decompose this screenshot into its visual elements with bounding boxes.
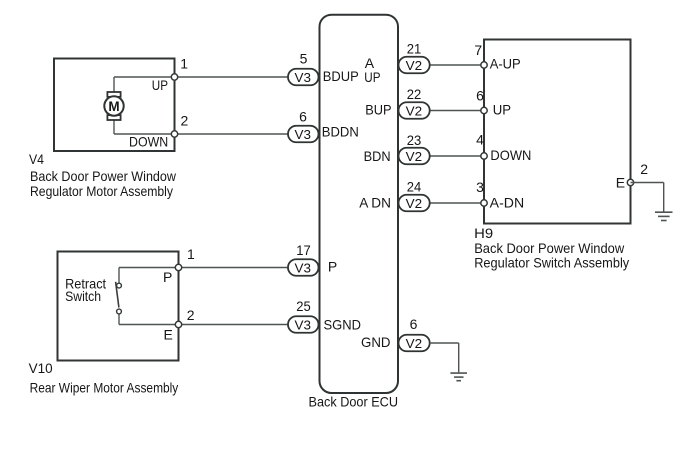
pin 4 of H9 [481,153,487,159]
svg-text:V3: V3 [295,317,312,332]
svg-text:A DN: A DN [359,195,391,211]
svg-text:6: 6 [299,109,307,125]
svg-text:Back Door ECU: Back Door ECU [309,394,399,410]
connector V2 pin 21 oval [399,57,430,74]
svg-text:DOWN: DOWN [490,147,531,163]
svg-text:BDUP: BDUP [323,68,359,84]
svg-text:V2: V2 [406,103,423,118]
pin 6 of H9 [481,107,487,113]
pin 2 of V4 [171,131,177,137]
wire ECU row3 to H9 pin 4 [430,155,484,157]
svg-text:DOWN: DOWN [129,133,168,149]
wire ECU row2 to H9 pin 6 [430,110,484,112]
svg-text:24: 24 [407,179,422,195]
svg-text:P: P [328,259,337,275]
svg-text:UP: UP [152,77,168,93]
wire V4 row2 DOWN (pin 2 to ECU) [114,133,289,135]
wire GND oval to ground [430,342,459,344]
retract switch S1 (V10) [116,282,122,314]
svg-text:V2: V2 [406,149,423,164]
svg-text:V10: V10 [29,360,53,376]
svg-text:GND: GND [361,334,391,350]
component box V10 Rear Wiper Motor Assembly [58,252,179,361]
pin 1 of V10 [175,264,181,270]
svg-text:21: 21 [407,41,422,57]
svg-text:4: 4 [476,132,484,148]
pin 2 of H9 [627,179,633,185]
component box V4 Back Door Power Window Regulator Motor Assembly [54,59,175,152]
svg-text:UP: UP [364,69,380,85]
svg-text:E: E [616,175,625,191]
motor M (V4) [104,92,123,120]
svg-text:P: P [163,269,172,285]
svg-text:Back Door Power Window: Back Door Power Window [30,168,177,184]
svg-text:Regulator Switch Assembly: Regulator Switch Assembly [474,254,629,270]
ECU box Back Door ECU [320,15,399,393]
ground symbol (ECU GND) [450,373,467,381]
svg-text:2: 2 [640,161,648,177]
svg-text:V2: V2 [406,58,423,73]
wire V10 row2 E (pin 2 to ECU) [119,324,289,326]
svg-text:2: 2 [187,307,195,323]
wire H9 pin 2 to ground [631,182,664,184]
svg-text:6: 6 [476,87,484,103]
connector V2 pin 22 oval [399,102,430,119]
svg-text:V3: V3 [295,70,312,85]
svg-text:E: E [164,326,173,342]
svg-text:V3: V3 [295,260,312,275]
svg-text:23: 23 [407,132,422,148]
pin 7 of H9 [481,62,487,68]
svg-text:Rear Wiper Motor Assembly: Rear Wiper Motor Assembly [30,379,179,395]
connector V3 pin 25 oval [288,316,319,333]
svg-text:A-DN: A-DN [490,195,525,211]
svg-text:1: 1 [180,56,188,72]
svg-text:1: 1 [187,246,195,262]
ground symbol (H9 E) [655,212,673,220]
wire ECU row4 to H9 pin 3 [430,202,484,204]
wire V4 motor bottom lead [113,120,115,135]
wire V4 motor top lead [113,77,115,93]
connector V2 pin 23 oval [399,148,430,165]
svg-text:V2: V2 [406,196,423,211]
wire V10 row1 P (pin 1 to ECU) [119,267,289,269]
svg-text:UP: UP [493,102,511,118]
wire ECU row1 to H9 pin 7 [430,64,484,66]
svg-text:BDN: BDN [364,148,391,164]
svg-text:M: M [108,99,119,114]
svg-text:V3: V3 [295,127,312,142]
svg-text:SGND: SGND [324,317,362,333]
svg-text:17: 17 [296,242,311,258]
svg-text:25: 25 [296,298,311,314]
svg-text:A-UP: A-UP [490,55,521,71]
svg-text:3: 3 [476,179,484,195]
svg-text:2: 2 [181,113,189,129]
pin 2 of V10 [175,321,181,327]
pin 3 of H9 [481,200,487,206]
svg-text:6: 6 [410,316,418,332]
svg-text:Regulator Motor Assembly: Regulator Motor Assembly [30,183,173,199]
svg-text:Switch: Switch [65,288,101,304]
svg-text:V4: V4 [29,151,44,167]
svg-text:22: 22 [407,86,422,102]
svg-text:BUP: BUP [365,102,391,118]
svg-text:H9: H9 [474,225,493,241]
connector V2 pin 6 oval (GND) [399,335,430,352]
connector V3 pin 17 oval [288,259,319,276]
component box H9 Back Door Power Window Regulator Switch Assembly [484,40,631,224]
svg-text:7: 7 [474,42,482,58]
wire V4 row1 UP (pin 1 to ECU) [114,76,289,78]
pin 1 of V4 [171,74,177,80]
svg-text:BDDN: BDDN [322,124,359,140]
wire V10 switch upper lead [118,268,120,284]
connector V3 pin 5 oval [288,69,319,86]
connector V3 pin 6 oval [288,126,319,143]
svg-text:5: 5 [300,51,308,67]
wire V10 switch lower lead [118,314,120,325]
svg-text:V2: V2 [406,336,423,351]
connector V2 pin 24 oval [399,195,430,212]
